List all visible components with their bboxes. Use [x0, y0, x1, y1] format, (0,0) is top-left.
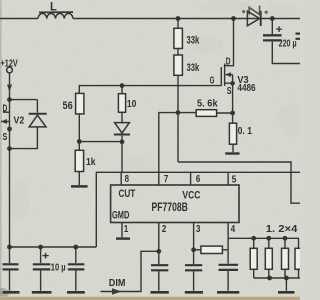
svg-text:10: 10 [127, 98, 137, 110]
wire source column down [9, 149, 11, 247]
node S junction bank2 [266, 236, 271, 241]
wire bank bottom rail [254, 277, 300, 279]
node C junction top 220u [270, 16, 275, 21]
svg-text:5. 6k: 5. 6k [197, 97, 218, 109]
capacitor C7 [185, 250, 202, 291]
wire pin4 to R8 node [227, 238, 229, 263]
svg-text:1k: 1k [86, 156, 96, 168]
svg-text:S: S [3, 132, 8, 143]
wire pin7 branch [159, 113, 178, 185]
resistor R3 1k [75, 142, 83, 186]
transistor Q1 V2 body [1, 100, 10, 129]
resistor R7 0.1 [229, 123, 236, 152]
svg-text:1: 1 [124, 224, 129, 235]
svg-text:S: S [227, 86, 232, 97]
capacitor C5 [68, 247, 85, 291]
node F junction source tap [7, 146, 12, 151]
capacitor C6 [151, 251, 168, 290]
diode V2 parallel [10, 100, 47, 149]
transistor Q2 V3 [221, 19, 233, 87]
ground C3 [3, 291, 20, 294]
node M junction pin2 [156, 249, 161, 254]
node K junction V3 source [230, 81, 235, 86]
node I junction diode bottom [120, 139, 125, 144]
node D junction V2 drain [7, 97, 12, 102]
svg-text:G: G [210, 76, 215, 87]
svg-text:3: 3 [196, 224, 201, 235]
diode V4 [114, 123, 130, 142]
node A junction top 33k [176, 16, 181, 21]
wire top rail left [0, 18, 38, 20]
ground 1k [71, 185, 88, 188]
node B junction top V3 drain [231, 16, 236, 21]
wire V3 source down [232, 83, 234, 123]
svg-text:GMD: GMD [112, 210, 129, 222]
resistor R4 33k upper [174, 19, 183, 49]
paper mottling blobs [10, 0, 302, 222]
diode V1 [247, 11, 260, 26]
svg-text:D: D [226, 56, 231, 67]
svg-text:2: 2 [162, 224, 167, 235]
node J junction 33k mid tap [176, 110, 181, 115]
wire 220u to right edge [272, 42, 300, 64]
resistor R6 5.6k [178, 110, 233, 117]
svg-text:1. 2×4: 1. 2×4 [266, 223, 298, 235]
wire gate rail [79, 86, 221, 94]
svg-text:0. 1: 0. 1 [238, 125, 253, 137]
pin 8 divider [120, 172, 122, 185]
capacitor C1 220u [263, 35, 282, 40]
node V junction bank bottom3 [284, 276, 289, 281]
node P junction rail cap1 [7, 245, 12, 250]
resistor R12 edge partial [295, 238, 302, 278]
svg-text:33k: 33k [187, 62, 200, 74]
svg-text:PF7708B: PF7708B [152, 202, 188, 214]
resistor R9 [250, 238, 257, 278]
svg-text:7: 7 [164, 174, 169, 185]
wire bus L2 [178, 162, 300, 203]
svg-text:+: + [42, 250, 49, 262]
wire V2 drain to diode [10, 99, 38, 101]
svg-text:33k: 33k [187, 34, 200, 46]
wire pin8 riser [121, 142, 123, 173]
wire bank top rail [228, 237, 299, 239]
wire pin4 riser [227, 223, 229, 239]
svg-text:10 µ: 10 µ [51, 262, 66, 273]
node E junction V2 source [7, 127, 12, 132]
wire H to I [79, 141, 122, 143]
resistor R2 10 [118, 86, 125, 123]
node G junction 10 top [120, 83, 125, 88]
svg-text:56: 56 [63, 100, 73, 112]
pin 5 divider [227, 172, 229, 185]
arrow current into V2 [7, 85, 12, 93]
resistor R1 56 [76, 93, 84, 141]
wire DIM line [101, 251, 159, 291]
wire bottom left rail [10, 246, 97, 248]
wire bank ground stem [285, 278, 287, 291]
resistor R5 33k lower [174, 49, 183, 163]
wire top rail middle [73, 18, 247, 20]
node N junction pin3 [191, 247, 196, 252]
capacitor C8 [219, 265, 239, 291]
terminal +12V [7, 67, 13, 73]
ground pin1 [116, 237, 130, 239]
svg-text:+: + [276, 24, 283, 36]
capacitor C2 right edge partial [296, 34, 301, 39]
svg-text:5: 5 [232, 174, 237, 186]
inductor L [38, 13, 73, 18]
ghost print marks top [249, 6, 259, 15]
capacitor C4 10u [33, 247, 51, 291]
svg-text:L: L [50, 0, 57, 14]
ground C7 [185, 291, 203, 294]
resistor R10 [265, 238, 272, 278]
ground C5 [67, 291, 85, 294]
svg-text:8: 8 [125, 174, 130, 185]
wire bus L1 [96, 172, 300, 247]
node L junction source sense [230, 111, 235, 116]
wire 220u branch [271, 19, 273, 35]
resistor R8 horizontal [194, 246, 229, 253]
svg-text:6: 6 [196, 174, 201, 185]
ground bank [278, 291, 295, 294]
left scan edge [0, 0, 2, 300]
svg-text:VCC: VCC [182, 189, 200, 201]
capacitor C3 [3, 247, 19, 291]
arrow DIM [112, 288, 122, 294]
svg-text:D: D [3, 104, 8, 115]
ground 0.1 [225, 152, 239, 154]
ground C8 [217, 291, 239, 294]
svg-text:DIM: DIM [109, 278, 126, 289]
wire V2 source down [9, 129, 11, 149]
node Q junction rail cap3 [73, 245, 78, 250]
svg-text:4486: 4486 [237, 83, 256, 94]
wire pin1 ground stem [121, 223, 123, 238]
pin 6 divider [190, 172, 192, 185]
wire pin3 riser [193, 223, 195, 250]
svg-text:4: 4 [231, 224, 236, 235]
svg-text:220 µ: 220 µ [279, 39, 297, 50]
node R junction bank1 [251, 236, 256, 241]
node T junction bank3 [283, 236, 288, 241]
resistor R11 [282, 238, 289, 278]
wire +12V down [9, 73, 11, 100]
op-amp U1 PF7708B box [111, 185, 239, 223]
node U junction bank bottom2 [267, 276, 272, 281]
node O junction rail cap2 [38, 245, 43, 250]
ground C6 [151, 291, 169, 294]
bottom scan strip [0, 296, 300, 300]
node H junction 56 bottom [77, 139, 82, 144]
ground C4 [32, 291, 52, 294]
inductor L core bar [39, 11, 73, 13]
wire pin2 riser [158, 223, 160, 252]
wire top rail right [261, 18, 300, 20]
svg-text:CUT: CUT [119, 188, 136, 200]
svg-text:V2: V2 [14, 114, 25, 126]
svg-text:+12V: +12V [1, 57, 18, 69]
